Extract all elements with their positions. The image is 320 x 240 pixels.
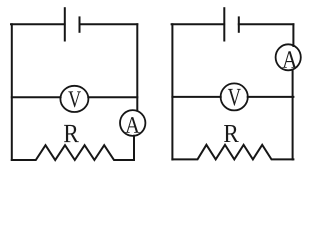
voltmeter V1 circle <box>60 86 88 112</box>
voltmeter V2 circle <box>221 83 248 110</box>
wire: left vertical <box>171 24 173 159</box>
wire: top right segment <box>239 23 294 25</box>
battery B1 short plate <box>79 17 81 31</box>
wire: middle left segment <box>12 96 61 98</box>
wire: right vertical below ammeter <box>292 70 294 160</box>
wire: ammeter bottom stub <box>133 136 135 159</box>
battery B2 long plate <box>223 8 225 40</box>
battery B1 long plate <box>64 8 66 40</box>
wire: right vertical to ammeter <box>136 24 138 110</box>
wire: bottom with resistor R zigzag <box>12 145 134 160</box>
label A (right ammeter) <box>282 51 297 68</box>
wire: right vertical upper to ammeter <box>292 24 294 46</box>
wire: middle right segment <box>248 96 294 98</box>
wire: top left segment <box>172 23 225 25</box>
ammeter A2 circle <box>276 44 301 70</box>
battery B2 short plate <box>238 17 240 31</box>
label V (left voltmeter) <box>68 91 81 107</box>
wire: bottom with resistor R zigzag <box>172 145 293 160</box>
wire: top right segment <box>80 23 138 25</box>
wire: top left segment <box>11 23 65 25</box>
label A (left ammeter) <box>125 117 139 133</box>
wire: left vertical <box>11 24 13 160</box>
label R (left resistor) <box>64 125 79 142</box>
label R (right resistor) <box>224 125 239 142</box>
ammeter A1 circle <box>120 110 145 136</box>
wire: middle left segment <box>172 96 220 98</box>
wire: middle right segment <box>88 96 137 98</box>
label V (right voltmeter) <box>228 89 241 106</box>
